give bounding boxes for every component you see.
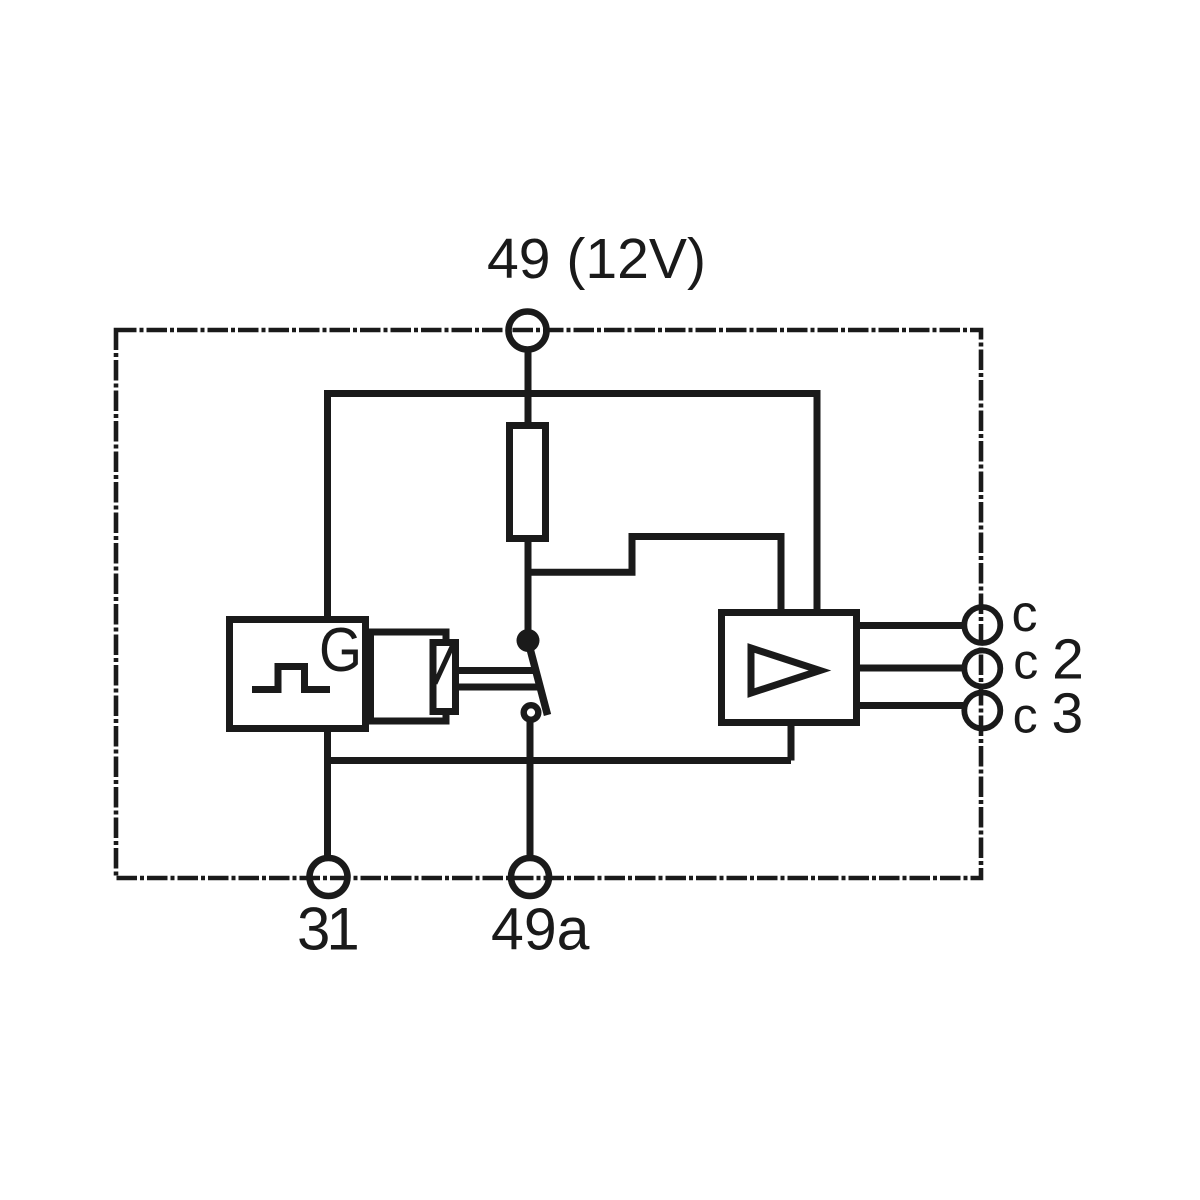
terminal c2 (964, 651, 1000, 687)
svg-text:c 3: c 3 (1013, 681, 1084, 745)
switch blade (528, 641, 548, 715)
wire: switch contact to terminal 49a (527, 719, 534, 856)
mechanical linkage upper (456, 667, 534, 674)
wire: top rail from generator to amplifier input (328, 394, 818, 617)
relay coil box (371, 632, 447, 721)
wire: switch node step to amplifier input (528, 537, 781, 613)
wire: generator bottom to terminal 31 (324, 730, 331, 856)
pulse waveform symbol (252, 667, 330, 690)
relay armature (433, 643, 456, 712)
wire: amplifier bottom pin to bottom rail (788, 724, 795, 761)
mechanical linkage lower (456, 684, 538, 691)
wire: amplifier output to terminal c3 (858, 702, 963, 709)
terminal c (964, 607, 1000, 643)
terminal 49 (509, 312, 547, 350)
svg-text:49 (12V): 49 (12V) (487, 227, 706, 291)
pulse generator G box (230, 620, 366, 729)
amplifier U1 box (722, 613, 857, 723)
svg-text:G: G (319, 616, 362, 685)
wire: amplifier output to terminal c (858, 622, 963, 629)
svg-text:31: 31 (297, 896, 357, 963)
wire: resistor to switch common node (525, 540, 532, 641)
enclosure dash-dot boundary (116, 330, 981, 878)
terminal c3 (964, 693, 1000, 729)
wire: terminal 49 to resistor (525, 351, 532, 424)
armature hatch stroke (435, 644, 454, 684)
switch pivot node (517, 629, 540, 652)
wire: amplifier output to terminal c2 (858, 665, 963, 672)
amplifier triangle (751, 648, 820, 693)
switch fixed contact (524, 705, 539, 720)
terminal 31 (310, 858, 348, 896)
resistor R1 (510, 426, 546, 539)
terminal 49a (511, 858, 549, 896)
svg-text:49a: 49a (491, 897, 590, 963)
wire: bottom rail (328, 757, 792, 764)
